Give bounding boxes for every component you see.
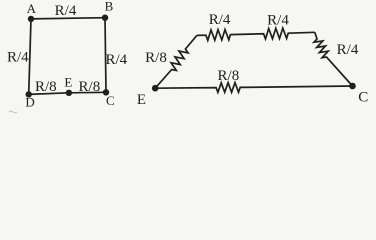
wire E-C bottom of right figure with resistor R/8 [155, 83, 352, 93]
svg-text:C: C [106, 93, 115, 108]
svg-text:B: B [105, 0, 114, 14]
svg-text:R/8: R/8 [218, 68, 240, 84]
svg-text:R/8: R/8 [35, 79, 57, 95]
svg-text:R/4: R/4 [337, 42, 359, 58]
svg-text:R/4: R/4 [209, 12, 231, 28]
resistor R/4 on right diagonal from top wire to C [314, 32, 353, 86]
svg-text:C: C [358, 89, 368, 105]
wire A-D (left edge of square, value R/4) [29, 19, 31, 95]
svg-text:A: A [27, 1, 37, 16]
node E (square) [66, 90, 72, 96]
node C (right figure) [349, 83, 356, 90]
svg-text:R/8: R/8 [145, 50, 167, 66]
wire B-C (right edge of square, value R/4) [105, 18, 106, 93]
wire A-B (top edge of square, value R/4) [31, 18, 105, 19]
wire D-E-C (bottom edge of square, values R/8 and R/8) [29, 92, 106, 94]
node C (square) [103, 89, 109, 95]
svg-text:R/4: R/4 [105, 52, 127, 68]
resistor R/8 on left diagonal from E to top wire [155, 35, 197, 88]
faint page bleed-through mark bottom-left [9, 111, 17, 113]
node D [26, 91, 32, 97]
top wire with resistors R/4 and R/4 [197, 28, 315, 40]
svg-text:R/4: R/4 [7, 50, 29, 66]
svg-text:R/4: R/4 [55, 3, 77, 19]
node A [28, 16, 34, 22]
svg-text:D: D [25, 95, 34, 110]
svg-text:E: E [137, 92, 146, 108]
svg-text:R/4: R/4 [267, 12, 289, 28]
node E (right figure) [152, 85, 159, 92]
svg-text:R/8: R/8 [79, 79, 101, 95]
svg-text:E: E [64, 74, 72, 89]
node B [102, 15, 108, 21]
